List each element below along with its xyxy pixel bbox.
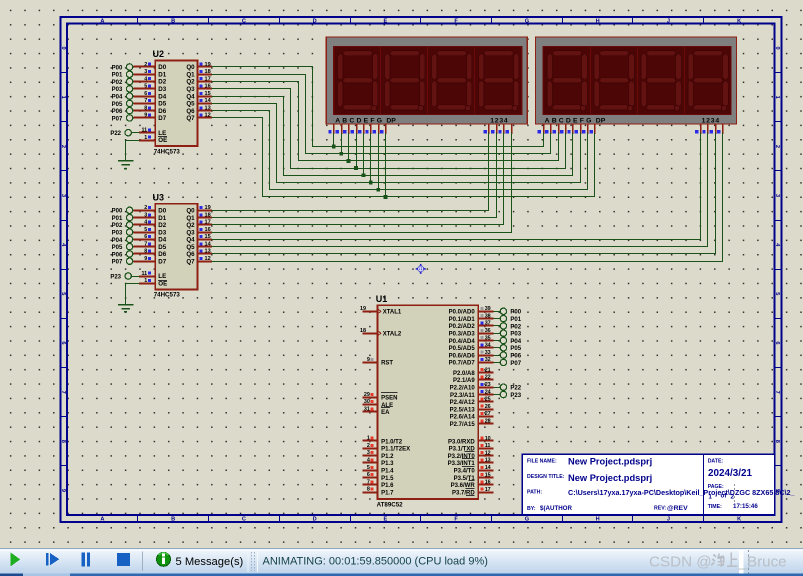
wire net SEG-F: U2 Q5 to displays bbox=[212, 104, 581, 183]
DS1 digit 4 segments (off) bbox=[484, 51, 514, 56]
svg-text:OE: OE bbox=[158, 281, 167, 288]
svg-text:Q1: Q1 bbox=[186, 215, 195, 222]
svg-text:7: 7 bbox=[60, 391, 66, 394]
svg-text:6: 6 bbox=[774, 341, 780, 344]
svg-text:4: 4 bbox=[144, 76, 147, 82]
svg-text:E: E bbox=[384, 516, 388, 522]
terminal P05 at U3 D5 bbox=[126, 243, 132, 249]
svg-text:16: 16 bbox=[205, 227, 211, 233]
svg-text:$(AUTHOR: $(AUTHOR bbox=[540, 505, 572, 512]
U1 pin P3.1 (11) bbox=[478, 448, 493, 450]
svg-text:P03: P03 bbox=[510, 332, 521, 338]
U3 pin D6 (left, pin 8) bbox=[133, 253, 155, 255]
svg-text:D4: D4 bbox=[158, 237, 166, 244]
latch U3 74HC573 body bbox=[155, 204, 197, 290]
U1 pin P1.6 (7) bbox=[362, 484, 377, 486]
svg-text:1: 1 bbox=[144, 135, 147, 141]
DS1 digit divider 2 bbox=[427, 46, 429, 114]
U1 pin P2.1/A9 (22) bbox=[478, 379, 493, 381]
U1 pin P0.2/AD2 (37) bbox=[478, 325, 493, 327]
svg-text:J: J bbox=[667, 18, 670, 24]
svg-text:D7: D7 bbox=[158, 115, 166, 122]
svg-text:2: 2 bbox=[367, 443, 370, 449]
svg-text:13: 13 bbox=[205, 249, 211, 255]
DS1 segment pin E stub bbox=[363, 124, 365, 134]
svg-text:7: 7 bbox=[144, 98, 147, 104]
svg-text:EA: EA bbox=[381, 410, 390, 416]
svg-text:P04: P04 bbox=[510, 339, 521, 345]
U1 pin XTAL1 (19) bbox=[362, 311, 377, 313]
svg-text:11: 11 bbox=[141, 128, 147, 134]
U2 pin Q3 (right, pin 16) bbox=[198, 88, 212, 90]
svg-text:P1.5: P1.5 bbox=[381, 476, 394, 482]
terminal P22 at U1 bbox=[494, 387, 500, 389]
svg-text:13: 13 bbox=[485, 458, 491, 464]
wire net DIG2B: U3 Q5 to display digit pin bbox=[212, 133, 708, 247]
step button bbox=[46, 553, 49, 566]
U1 pin XTAL2 (18) bbox=[362, 333, 377, 335]
svg-text:P00: P00 bbox=[112, 209, 123, 215]
svg-text:28: 28 bbox=[485, 419, 491, 425]
svg-text:ABCDEFG: ABCDEFG bbox=[335, 117, 384, 124]
U2 pin Q2 (right, pin 17) bbox=[198, 81, 212, 83]
svg-text:E: E bbox=[384, 18, 388, 24]
svg-text:D1: D1 bbox=[158, 71, 166, 78]
svg-text:3: 3 bbox=[60, 194, 66, 197]
svg-text:25: 25 bbox=[485, 397, 491, 403]
wire branch SEG-G to DS1 bbox=[378, 133, 380, 190]
DS2 digit 1 segments (off) bbox=[552, 51, 582, 56]
junction SEG-B at DS1 pin bbox=[339, 152, 343, 156]
svg-text:P01: P01 bbox=[510, 317, 521, 323]
svg-text:P0.3/AD3: P0.3/AD3 bbox=[449, 332, 476, 338]
svg-text:1: 1 bbox=[367, 436, 370, 442]
DS2 segment pin DP stub bbox=[594, 124, 596, 134]
U1 pin P0.1/AD1 (38) bbox=[478, 318, 493, 320]
info icon bbox=[157, 552, 171, 566]
terminal P07 at U3 D7 bbox=[126, 258, 132, 264]
DS1 digit divider 3 bbox=[474, 46, 476, 114]
DS2 digit 4 segments (off) bbox=[693, 51, 723, 56]
U2 pin D4 (left, pin 6) bbox=[133, 96, 155, 98]
DS1 display area bbox=[334, 46, 522, 114]
svg-text:_Bruce: _Bruce bbox=[738, 554, 787, 571]
svg-text:8: 8 bbox=[774, 440, 780, 443]
U1 pin P3.2 (12) bbox=[478, 455, 493, 457]
svg-text:8: 8 bbox=[144, 105, 147, 111]
svg-text:0: 0 bbox=[60, 47, 66, 50]
terminal P02 at U3 D2 bbox=[126, 222, 132, 228]
svg-text:@REV: @REV bbox=[667, 505, 688, 512]
DS2 digit select pin 2 stub bbox=[707, 124, 709, 134]
svg-text:35: 35 bbox=[485, 335, 491, 341]
svg-text:12: 12 bbox=[205, 256, 211, 262]
terminal P01 at U1 bbox=[494, 318, 500, 320]
svg-text:1: 1 bbox=[774, 96, 780, 99]
U1 pin P0.5/AD5 (34) bbox=[478, 347, 493, 349]
svg-text:17: 17 bbox=[205, 76, 211, 82]
terminal P06 at U1 bbox=[494, 355, 500, 357]
section grip dots bbox=[247, 551, 249, 572]
wire net SEG-DP: U2 Q7 to displays bbox=[212, 118, 595, 197]
svg-text:P2.7/A15: P2.7/A15 bbox=[450, 422, 476, 428]
svg-text:P1.2: P1.2 bbox=[381, 454, 394, 460]
svg-text:P2.1/A9: P2.1/A9 bbox=[453, 378, 475, 384]
U2 pin Q5 (right, pin 14) bbox=[198, 103, 212, 105]
wire net DIG4B: U3 Q7 to display digit pin bbox=[212, 133, 723, 262]
svg-text:PATH:: PATH: bbox=[527, 490, 542, 496]
U2 pin D6 (left, pin 8) bbox=[133, 110, 155, 112]
terminal P03 at U3 D3 bbox=[126, 229, 132, 235]
wire net SEG-E: U2 Q4 to displays bbox=[212, 97, 573, 176]
DS2 segment pin E stub bbox=[572, 124, 574, 134]
svg-text:P0.7/AD7: P0.7/AD7 bbox=[449, 361, 476, 367]
svg-text:14: 14 bbox=[205, 98, 212, 104]
title block divider bbox=[703, 454, 705, 515]
svg-text:8: 8 bbox=[144, 249, 147, 255]
DS2 digit select pin 1 stub bbox=[700, 124, 702, 134]
wire net DIG3B: U3 Q6 to display digit pin bbox=[212, 133, 716, 254]
U3 pin OE (pin 1, active low) bbox=[139, 283, 155, 285]
svg-text:7: 7 bbox=[367, 479, 370, 485]
svg-text:TIME:: TIME: bbox=[708, 504, 722, 510]
terminal P23 at U1 bbox=[494, 394, 500, 396]
svg-text:BY:: BY: bbox=[527, 506, 536, 512]
svg-text:Q5: Q5 bbox=[186, 101, 195, 108]
svg-text:18: 18 bbox=[360, 328, 366, 334]
svg-text:Q2: Q2 bbox=[186, 79, 195, 86]
svg-text:P0.0/AD0: P0.0/AD0 bbox=[449, 310, 476, 316]
U3 pin Q2 (right, pin 17) bbox=[198, 224, 212, 226]
svg-text:P06: P06 bbox=[112, 109, 123, 115]
U2 pin D5 (left, pin 7) bbox=[133, 103, 155, 105]
svg-text:Q2: Q2 bbox=[186, 222, 195, 229]
svg-text:D0: D0 bbox=[158, 64, 166, 71]
terminal P03 at U2 D3 bbox=[126, 86, 132, 92]
ground (U2 OE) bbox=[118, 160, 133, 162]
DS2 digit select pin 3 stub bbox=[715, 124, 717, 134]
svg-text:D2: D2 bbox=[158, 222, 166, 229]
wire net DIG3A: U3 Q2 to display digit pin bbox=[212, 133, 504, 225]
svg-text:D: D bbox=[313, 18, 317, 24]
svg-text:P3.5/T1: P3.5/T1 bbox=[454, 476, 476, 482]
svg-text:8: 8 bbox=[367, 487, 370, 493]
U1 pin P1.1 (2) bbox=[362, 448, 377, 450]
U1 pin P3.6 (16) bbox=[478, 484, 493, 486]
DS2 segment pin C stub bbox=[558, 124, 560, 134]
svg-text:17:15:46: 17:15:46 bbox=[733, 503, 758, 510]
U1 pin P1.4 (5) bbox=[362, 470, 377, 472]
U1 pin P2.7/A15 (28) bbox=[478, 423, 493, 425]
svg-text:P04: P04 bbox=[112, 94, 123, 100]
U1 pin P1.3 (4) bbox=[362, 462, 377, 464]
svg-text:Q0: Q0 bbox=[186, 64, 195, 71]
svg-text:P01: P01 bbox=[112, 73, 123, 79]
DS2 segment pin D stub bbox=[565, 124, 567, 134]
DS2 digit 2 segments (off) bbox=[599, 51, 629, 56]
svg-text:P01: P01 bbox=[112, 216, 123, 222]
wire branch SEG-B to DS1 bbox=[341, 133, 343, 154]
svg-text:37: 37 bbox=[485, 321, 491, 327]
terminal P06 at U2 D6 bbox=[126, 107, 132, 113]
svg-text:4: 4 bbox=[367, 458, 370, 464]
DS1 segment pin DP stub bbox=[385, 124, 387, 134]
svg-text:1: 1 bbox=[708, 494, 712, 501]
U1 pin P3.3 (13) bbox=[478, 462, 493, 464]
wire net DIG2A: U3 Q1 to display digit pin bbox=[212, 133, 497, 218]
svg-text:P00: P00 bbox=[510, 310, 521, 316]
terminal P05 at U1 bbox=[494, 347, 500, 349]
svg-text:38: 38 bbox=[485, 313, 491, 319]
DS1 digit 1 segments (off) bbox=[343, 51, 373, 56]
svg-text:Q3: Q3 bbox=[186, 86, 195, 93]
svg-text:C:\Users\17yxa.17yxa-PC\Deskto: C:\Users\17yxa.17yxa-PC\Desktop\Keil_Pro… bbox=[568, 488, 796, 497]
terminal P06 at U3 D6 bbox=[126, 251, 132, 257]
wire net SEG-A: U2 Q0 to displays bbox=[212, 67, 544, 147]
svg-text:Q0: Q0 bbox=[186, 208, 195, 215]
svg-text:Q5: Q5 bbox=[186, 244, 195, 251]
U1 pin ALE (30) bbox=[362, 404, 377, 406]
svg-text:XTAL1: XTAL1 bbox=[383, 310, 402, 316]
U1 pin EA (31) bbox=[362, 411, 377, 413]
svg-text:U1: U1 bbox=[376, 294, 388, 304]
svg-text:DP: DP bbox=[386, 117, 396, 124]
U1 pin P2.0/A8 (21) bbox=[478, 372, 493, 374]
DS1 segment pin G stub bbox=[378, 124, 380, 134]
svg-text:DATE:: DATE: bbox=[708, 459, 724, 465]
svg-text:32: 32 bbox=[485, 357, 491, 363]
svg-text:9: 9 bbox=[60, 489, 66, 492]
svg-text:1: 1 bbox=[60, 96, 66, 99]
wire net SEG-G: U2 Q6 to displays bbox=[212, 111, 588, 190]
svg-text:FILE NAME:: FILE NAME: bbox=[527, 459, 557, 465]
svg-text:P02: P02 bbox=[510, 324, 521, 330]
svg-text:P00: P00 bbox=[112, 65, 123, 71]
U3 pin Q0 (right, pin 19) bbox=[198, 210, 212, 212]
svg-text:P07: P07 bbox=[510, 361, 521, 367]
svg-text:36: 36 bbox=[485, 328, 491, 334]
terminal P02 at U1 bbox=[494, 325, 500, 327]
U3 pin D2 (left, pin 4) bbox=[133, 224, 155, 226]
U2 pin D1 (left, pin 3) bbox=[133, 74, 155, 76]
bottom window strip bbox=[0, 574, 803, 576]
wire P22 terminal to U2 LE bbox=[132, 132, 140, 134]
svg-text:P0.2/AD2: P0.2/AD2 bbox=[449, 324, 476, 330]
svg-text:P2.5/A13: P2.5/A13 bbox=[450, 407, 476, 413]
junction SEG-DP at DS1 pin bbox=[384, 195, 388, 199]
U2 pin D3 (left, pin 5) bbox=[133, 88, 155, 90]
DS2 digit divider 3 bbox=[684, 46, 686, 114]
U1 pin P2.6/A14 (27) bbox=[478, 416, 493, 418]
DS2 segment pin B stub bbox=[550, 124, 552, 134]
wire branch SEG-E to DS1 bbox=[363, 133, 365, 175]
svg-text:U3: U3 bbox=[153, 192, 165, 202]
svg-text:5 Message(s): 5 Message(s) bbox=[176, 556, 244, 568]
wire U2 OE to ground bbox=[126, 141, 140, 161]
stop button bbox=[117, 553, 130, 566]
DS2 display area bbox=[543, 46, 731, 114]
DS1 segment pin C stub bbox=[348, 124, 350, 134]
svg-text:P1.4: P1.4 bbox=[381, 469, 394, 475]
svg-text:P22: P22 bbox=[110, 131, 121, 137]
U3 pin D4 (left, pin 6) bbox=[133, 239, 155, 241]
svg-text:H: H bbox=[596, 516, 600, 522]
wire branch SEG-DP to DS1 bbox=[385, 133, 387, 197]
svg-text:D5: D5 bbox=[158, 244, 166, 251]
svg-text:39: 39 bbox=[485, 306, 491, 312]
svg-text:P1.0/T2: P1.0/T2 bbox=[381, 439, 403, 445]
svg-text:5: 5 bbox=[144, 227, 147, 233]
svg-text:OE: OE bbox=[158, 137, 167, 144]
svg-text:P2.2/A10: P2.2/A10 bbox=[450, 386, 476, 392]
svg-text:11: 11 bbox=[141, 271, 147, 277]
svg-text:30: 30 bbox=[364, 399, 370, 405]
U1 pin P2.2/A10 (23) bbox=[478, 387, 493, 389]
DS2 digit divider 2 bbox=[637, 46, 639, 114]
svg-text:23: 23 bbox=[485, 382, 491, 388]
svg-text:P2.0/A8: P2.0/A8 bbox=[453, 371, 475, 377]
svg-text:P23: P23 bbox=[110, 274, 121, 280]
svg-text:P02: P02 bbox=[112, 223, 123, 229]
wire net DIG4A: U3 Q3 to display digit pin bbox=[212, 133, 512, 233]
svg-text:XTAL2: XTAL2 bbox=[383, 332, 402, 338]
svg-text:P1.1/T2EX: P1.1/T2EX bbox=[381, 447, 410, 453]
page boundary dashed line bbox=[734, 484, 736, 503]
svg-text:3: 3 bbox=[144, 212, 147, 218]
wire net DIG1B: U3 Q4 to display digit pin bbox=[212, 133, 701, 240]
svg-text:P23: P23 bbox=[510, 393, 521, 399]
U1 pin P1.7 (8) bbox=[362, 492, 377, 494]
wire net SEG-C: U2 Q2 to displays bbox=[212, 82, 559, 161]
svg-text:2: 2 bbox=[60, 145, 66, 148]
svg-text:10: 10 bbox=[485, 436, 491, 442]
svg-text:34: 34 bbox=[485, 343, 491, 349]
terminal P04 at U2 D4 bbox=[126, 93, 132, 99]
terminal P04 at U3 D4 bbox=[126, 236, 132, 242]
svg-text:PSEN: PSEN bbox=[381, 396, 397, 402]
svg-text:4: 4 bbox=[144, 220, 147, 226]
svg-text:H: H bbox=[596, 18, 600, 24]
svg-text:15: 15 bbox=[205, 234, 211, 240]
toolbar separator bbox=[142, 552, 144, 572]
svg-text:F: F bbox=[454, 516, 458, 522]
svg-text:19: 19 bbox=[360, 306, 366, 312]
U1 pin P3.4 (14) bbox=[478, 470, 493, 472]
svg-text:P1.6: P1.6 bbox=[381, 483, 394, 489]
U1 pin P2.5/A13 (26) bbox=[478, 409, 493, 411]
U2 pin Q1 (right, pin 18) bbox=[198, 74, 212, 76]
U1 pin P0.6/AD6 (33) bbox=[478, 355, 493, 357]
svg-text:3: 3 bbox=[144, 69, 147, 75]
svg-text:17: 17 bbox=[485, 487, 491, 493]
svg-text:19: 19 bbox=[205, 62, 211, 68]
svg-text:A: A bbox=[100, 18, 104, 24]
latch U2 74HC573 body bbox=[155, 60, 197, 146]
svg-text:D1: D1 bbox=[158, 215, 166, 222]
terminal P23 at U3 LE bbox=[125, 273, 131, 279]
svg-text:3: 3 bbox=[367, 450, 370, 456]
svg-text:P0.1/AD1: P0.1/AD1 bbox=[449, 317, 476, 323]
svg-text:F: F bbox=[454, 18, 458, 24]
DS1 digit 2 segments (off) bbox=[390, 51, 420, 56]
svg-text:29: 29 bbox=[364, 392, 370, 398]
origin marker bbox=[416, 264, 426, 274]
U3 pin Q1 (right, pin 18) bbox=[198, 217, 212, 219]
svg-text:Q6: Q6 bbox=[186, 108, 195, 115]
ground (U3 OE) bbox=[118, 304, 133, 306]
U1 pin RST (9) bbox=[362, 362, 377, 364]
svg-text:Q4: Q4 bbox=[186, 237, 195, 244]
terminal P22 at U2 LE bbox=[125, 130, 131, 136]
U3 pin Q3 (right, pin 16) bbox=[198, 232, 212, 234]
DS1 digit 3 segments (off) bbox=[437, 51, 467, 56]
svg-text:2: 2 bbox=[774, 145, 780, 148]
svg-text:22: 22 bbox=[485, 375, 491, 381]
svg-text:ALE: ALE bbox=[381, 403, 393, 409]
7-segment display DS2 module frame bbox=[536, 37, 737, 124]
U2 pin OE (pin 1, active low) bbox=[139, 140, 155, 142]
svg-text:9: 9 bbox=[144, 113, 147, 119]
svg-text:G: G bbox=[525, 18, 529, 24]
wire P23 terminal to U3 LE bbox=[132, 276, 140, 278]
U3 pin Q6 (right, pin 13) bbox=[198, 253, 212, 255]
svg-text:9: 9 bbox=[367, 357, 370, 363]
U3 pin D5 (left, pin 7) bbox=[133, 246, 155, 248]
U2 pin Q0 (right, pin 19) bbox=[198, 66, 212, 68]
svg-text:RST: RST bbox=[381, 361, 393, 367]
U1 pin P2.4/A12 (25) bbox=[478, 401, 493, 403]
svg-text:33: 33 bbox=[485, 350, 491, 356]
terminal P00 at U3 D0 bbox=[126, 207, 132, 213]
svg-text:P05: P05 bbox=[510, 346, 521, 352]
svg-text:16: 16 bbox=[485, 480, 491, 486]
U3 pin Q4 (right, pin 15) bbox=[198, 239, 212, 241]
U3 pin Q7 (right, pin 12) bbox=[198, 261, 212, 263]
svg-text:1234: 1234 bbox=[490, 117, 508, 124]
svg-text:D2: D2 bbox=[158, 79, 166, 86]
svg-text:D3: D3 bbox=[158, 86, 166, 93]
DS2 digit 3 segments (off) bbox=[646, 51, 676, 56]
junction SEG-E at DS1 pin bbox=[362, 173, 366, 177]
terminal P05 at U2 D5 bbox=[126, 100, 132, 106]
U3 pin D1 (left, pin 3) bbox=[133, 217, 155, 219]
svg-text:17: 17 bbox=[205, 220, 211, 226]
svg-text:DESIGN TITLE:: DESIGN TITLE: bbox=[527, 474, 565, 480]
svg-text:New Project.pdsprj: New Project.pdsprj bbox=[568, 473, 652, 483]
svg-text:9: 9 bbox=[144, 256, 147, 262]
svg-text:2: 2 bbox=[731, 494, 735, 501]
svg-text:6: 6 bbox=[60, 341, 66, 344]
DS1 digit select pin 2 stub bbox=[496, 124, 498, 134]
DS1 segment pin F stub bbox=[370, 124, 372, 134]
U3 pin LE (pin 11) bbox=[139, 276, 155, 278]
junction SEG-A at DS1 pin bbox=[332, 145, 336, 149]
junction SEG-F at DS1 pin bbox=[369, 181, 373, 185]
svg-text:P1.3: P1.3 bbox=[381, 461, 394, 467]
svg-text:P04: P04 bbox=[112, 238, 123, 244]
DS1 segment pin D stub bbox=[356, 124, 358, 134]
svg-text:D: D bbox=[313, 516, 317, 522]
svg-text:Q4: Q4 bbox=[186, 93, 195, 100]
svg-text:K: K bbox=[737, 516, 741, 522]
U1 pin P1.2 (3) bbox=[362, 455, 377, 457]
7-segment display DS1 module frame bbox=[326, 37, 527, 124]
svg-text:C: C bbox=[242, 516, 246, 522]
terminal P04 at U1 bbox=[494, 340, 500, 342]
U2 pin D2 (left, pin 4) bbox=[133, 81, 155, 83]
svg-text:P2.6/A14: P2.6/A14 bbox=[450, 415, 476, 421]
svg-text:21: 21 bbox=[485, 367, 491, 373]
